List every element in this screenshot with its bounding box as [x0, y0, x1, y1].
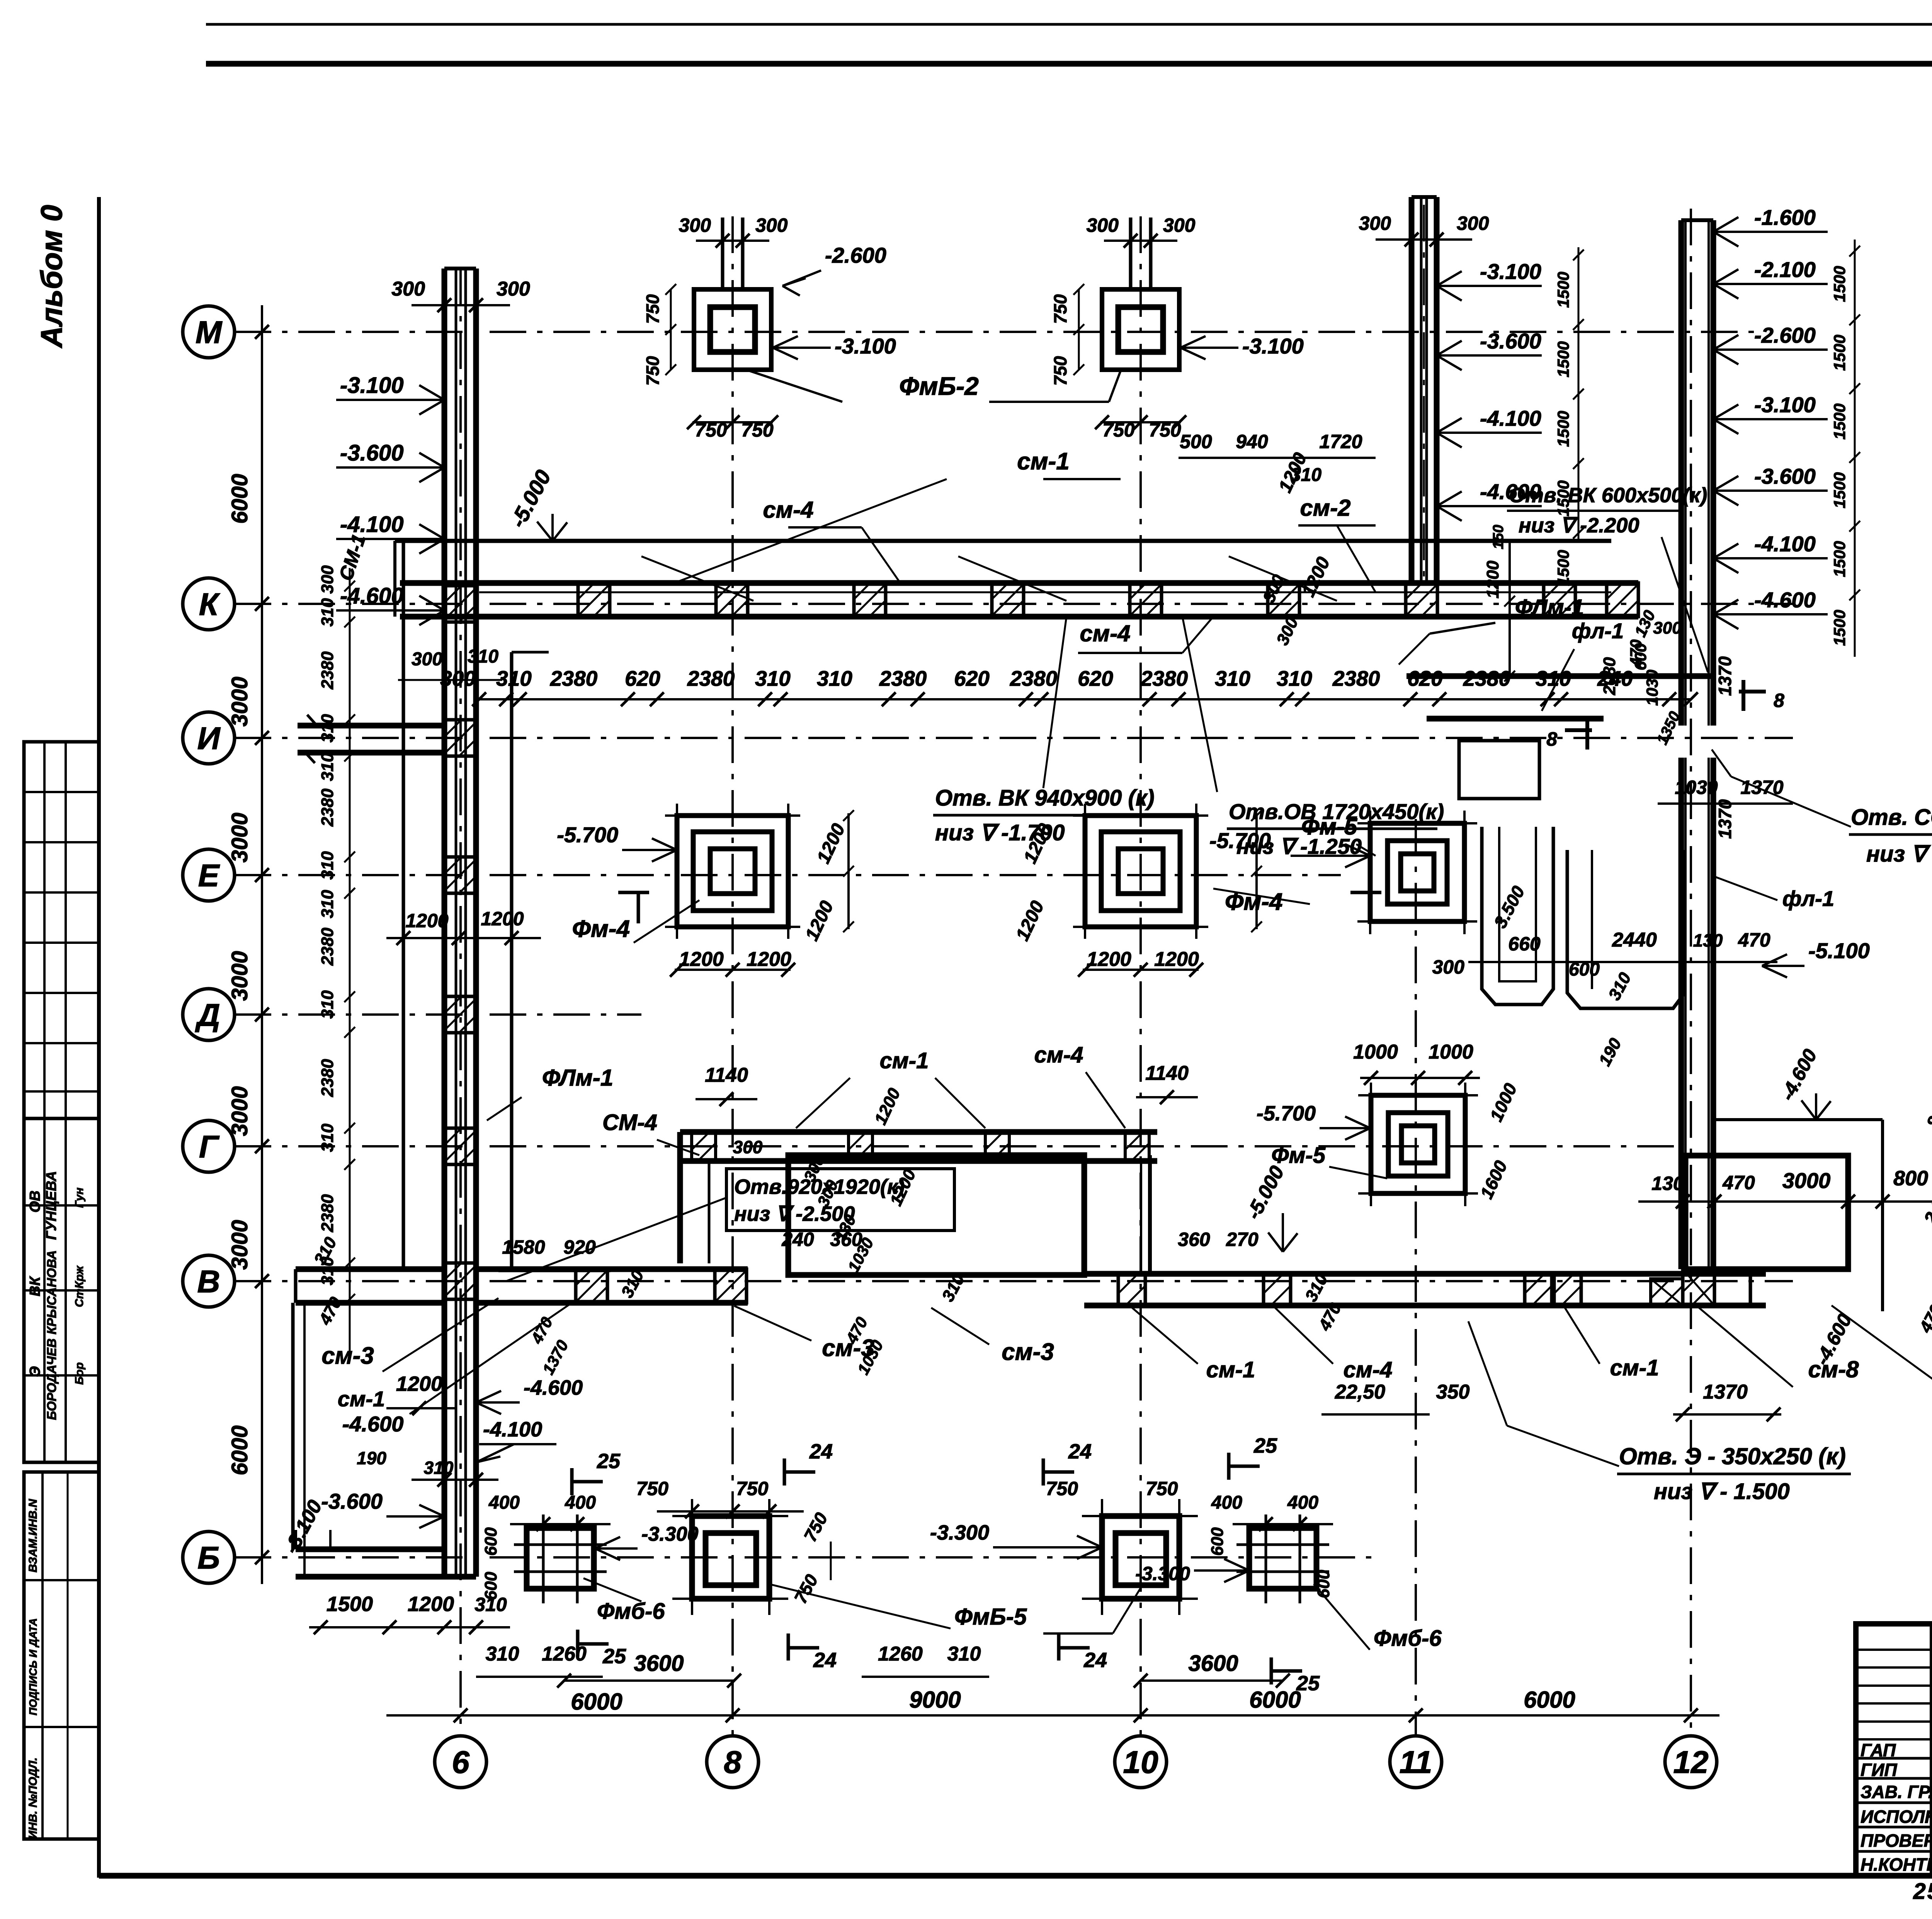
svg-text:ВК: ВК	[27, 1276, 43, 1296]
svg-text:9000: 9000	[909, 1687, 961, 1713]
svg-text:КРЫСАНОВА: КРЫСАНОВА	[44, 1250, 59, 1334]
500 940 1720 310 dims above right	[1179, 457, 1376, 459]
svg-text:24: 24	[1083, 1649, 1107, 1672]
level -4.600	[336, 609, 444, 612]
pad FMB-2 at axis 10/M	[1102, 289, 1179, 370]
V wall left stub	[296, 1266, 444, 1272]
svg-text:см-3: см-3	[1002, 1339, 1054, 1365]
svg-text:1370: 1370	[1715, 656, 1735, 696]
axis 12 circle	[1665, 1736, 1717, 1788]
svg-text:-4.600: -4.600	[1754, 588, 1816, 612]
svg-text:ОВ: ОВ	[27, 1191, 43, 1213]
vertical wall from V stub down to B corner	[291, 1303, 295, 1549]
svg-text:940: 940	[1236, 431, 1268, 452]
svg-text:Альбом 0: Альбом 0	[34, 205, 68, 348]
svg-text:6000: 6000	[227, 474, 252, 524]
frame top thin line	[206, 23, 1932, 26]
svg-text:см-1: см-1	[1017, 448, 1069, 475]
svg-text:-3.100: -3.100	[1480, 259, 1541, 284]
svg-text:6000: 6000	[571, 1689, 622, 1715]
svg-text:310: 310	[318, 598, 337, 627]
svg-text:310: 310	[318, 890, 337, 918]
svg-text:310: 310	[817, 666, 852, 690]
svg-text:470: 470	[1738, 929, 1770, 951]
svg-text:2380: 2380	[1010, 666, 1058, 690]
svg-text:см-1: см-1	[1610, 1355, 1659, 1380]
svg-text:1580: 1580	[502, 1236, 545, 1258]
svg-text:600: 600	[481, 1527, 500, 1556]
svg-text:750: 750	[1050, 356, 1070, 386]
svg-text:1370: 1370	[1740, 777, 1783, 798]
level labels right of axis-12 wall	[1713, 231, 1828, 233]
svg-text:см-1: см-1	[1206, 1357, 1255, 1382]
svg-text:-4.600: -4.600	[342, 1412, 404, 1436]
svg-text:300: 300	[318, 565, 337, 594]
svg-text:3600: 3600	[634, 1651, 684, 1676]
svg-text:2380: 2380	[318, 651, 337, 690]
svg-text:3000: 3000	[227, 676, 252, 726]
svg-text:низ ∇ -1.700: низ ∇ -1.700	[935, 820, 1065, 845]
svg-text:ГАП: ГАП	[1861, 1740, 1896, 1760]
axis И circle	[183, 712, 235, 764]
svg-text:1500: 1500	[1830, 610, 1849, 646]
svg-text:300: 300	[1087, 214, 1119, 236]
pad FM-4 at 10/E	[1085, 816, 1196, 927]
axis 10 circle	[1115, 1736, 1167, 1788]
left vertical dimension chain	[261, 305, 263, 1584]
svg-text:-4.100: -4.100	[1480, 406, 1541, 430]
svg-text:Н.КОНТР: Н.КОНТР	[1861, 1854, 1932, 1875]
G wall band	[680, 1129, 1157, 1135]
svg-text:К: К	[199, 587, 221, 622]
svg-text:3000: 3000	[1782, 1168, 1831, 1193]
svg-text:см-8: см-8	[1808, 1356, 1859, 1382]
axis Д circle	[183, 989, 235, 1040]
pad FMB-6 at x1450	[527, 1528, 594, 1589]
svg-text:310: 310	[486, 1643, 519, 1665]
1030 1370 dims at top right of E region	[1658, 802, 1793, 805]
svg-text:-3.100: -3.100	[1754, 393, 1816, 417]
svg-text:Фмб-6: Фмб-6	[597, 1599, 665, 1624]
svg-text:300: 300	[755, 214, 788, 236]
svg-text:Д: Д	[195, 998, 220, 1033]
svg-text:1500: 1500	[327, 1593, 373, 1616]
svg-text:750: 750	[643, 294, 663, 324]
hatched piers along K wall	[578, 583, 610, 617]
svg-text:1500: 1500	[1830, 335, 1849, 371]
svg-text:750: 750	[741, 419, 774, 441]
V wall band left half	[476, 1266, 748, 1272]
svg-text:Б: Б	[197, 1540, 220, 1576]
svg-text:310: 310	[1215, 666, 1250, 690]
svg-text:600: 600	[481, 1572, 500, 1600]
svg-text:1200: 1200	[396, 1372, 442, 1395]
svg-text:-5.700: -5.700	[557, 823, 618, 847]
svg-text:1500: 1500	[1830, 403, 1849, 439]
svg-text:Э: Э	[27, 1366, 43, 1377]
svg-text:310: 310	[947, 1643, 981, 1665]
sidebar upper table	[24, 742, 99, 1118]
svg-text:300: 300	[1457, 212, 1489, 234]
svg-text:2380: 2380	[550, 666, 598, 690]
svg-text:1000: 1000	[1429, 1041, 1473, 1063]
svg-text:фл-1: фл-1	[1782, 886, 1834, 911]
svg-text:1140: 1140	[1145, 1062, 1189, 1084]
300/300 marks at top of axis6 wall	[412, 304, 510, 306]
svg-text:Фм-4: Фм-4	[572, 916, 630, 942]
svg-text:ИСПОЛН: ИСПОЛН	[1861, 1807, 1932, 1827]
svg-text:ФмБ-2: ФмБ-2	[899, 372, 979, 400]
svg-text:2380: 2380	[318, 789, 337, 827]
vertical axis dash-dot lines	[459, 269, 462, 1735]
svg-text:1200: 1200	[1154, 948, 1199, 971]
wall on axis 12	[1679, 220, 1684, 726]
svg-text:Гун: Гун	[73, 1188, 86, 1208]
svg-text:-3.300: -3.300	[930, 1521, 989, 1544]
title block outer	[1856, 1624, 1932, 1876]
svg-text:2380: 2380	[1140, 666, 1188, 690]
svg-text:6000: 6000	[1249, 1687, 1301, 1713]
svg-text:-3.300: -3.300	[1135, 1563, 1190, 1584]
svg-text:800: 800	[1893, 1167, 1928, 1190]
svg-text:750: 750	[1102, 419, 1135, 441]
level -3.100	[336, 399, 444, 401]
svg-text:310: 310	[468, 646, 498, 667]
svg-text:1500: 1500	[1554, 272, 1572, 308]
level -3.600	[336, 466, 444, 469]
svg-text:Фм-5: Фм-5	[1271, 1143, 1326, 1168]
svg-text:ФЛм-1: ФЛм-1	[1515, 595, 1584, 620]
svg-text:660: 660	[1508, 933, 1541, 955]
svg-text:Отв. ВК 940х900 (к): Отв. ВК 940х900 (к)	[935, 785, 1155, 811]
U-shaft 2	[1567, 850, 1685, 1008]
1200/150 vertical dim near K right	[1509, 542, 1511, 676]
svg-text:1200: 1200	[408, 1593, 454, 1616]
montage opening rect	[1685, 1156, 1848, 1269]
frame left line	[97, 197, 101, 1878]
svg-text:1200: 1200	[405, 910, 448, 931]
svg-text:1500: 1500	[1554, 341, 1572, 377]
svg-text:190: 190	[357, 1448, 386, 1468]
svg-text:-4.100: -4.100	[483, 1418, 542, 1441]
svg-text:1260: 1260	[542, 1643, 587, 1665]
svg-text:24: 24	[813, 1649, 837, 1672]
level -4.100	[336, 538, 444, 540]
svg-text:6000: 6000	[227, 1425, 252, 1475]
svg-text:130: 130	[1651, 1173, 1684, 1194]
svg-text:8: 8	[1774, 690, 1784, 711]
svg-text:25: 25	[1253, 1434, 1277, 1457]
svg-text:12: 12	[1673, 1745, 1708, 1780]
svg-text:ЗАВ. ГР.: ЗАВ. ГР.	[1861, 1782, 1932, 1802]
svg-text:310: 310	[318, 990, 337, 1019]
svg-text:310: 310	[318, 753, 337, 781]
level labels right of axis-11 wall	[1437, 285, 1542, 287]
svg-text:150: 150	[1490, 525, 1507, 549]
svg-text:310: 310	[1291, 465, 1321, 485]
svg-text:-3.100: -3.100	[835, 334, 896, 358]
K-axis wall band	[400, 580, 1638, 586]
svg-text:300: 300	[733, 1137, 763, 1157]
svg-text:470: 470	[1627, 639, 1645, 667]
svg-text:300: 300	[412, 649, 442, 670]
wall on axis 11 upper part	[1409, 197, 1415, 583]
svg-text:ФЛм-1: ФЛм-1	[542, 1065, 613, 1091]
svg-text:500: 500	[1180, 431, 1212, 452]
svg-text:Отв. Э - 350х250 (к): Отв. Э - 350х250 (к)	[1619, 1443, 1846, 1469]
svg-text:Отв.920х1920(к): Отв.920х1920(к)	[734, 1175, 905, 1198]
svg-text:8: 8	[724, 1745, 742, 1780]
svg-text:Бор: Бор	[73, 1362, 86, 1385]
axis 11 circle	[1390, 1736, 1442, 1788]
svg-text:см-1: см-1	[880, 1048, 929, 1073]
svg-text:400: 400	[488, 1492, 520, 1513]
svg-text:М: М	[196, 315, 223, 350]
svg-text:1200: 1200	[1087, 948, 1131, 971]
T8 section marks at I	[1565, 728, 1592, 732]
svg-text:Отв. СС 250х250 (к): Отв. СС 250х250 (к)	[1851, 805, 1932, 830]
frame top thick line	[206, 61, 1932, 67]
U-shaft 1	[1482, 827, 1553, 1005]
I axis stub wall left	[298, 723, 444, 729]
sidebar lower table inv/podpis	[24, 1472, 99, 1839]
svg-text:-5.100: -5.100	[1808, 938, 1870, 963]
svg-text:1500: 1500	[1554, 550, 1572, 586]
svg-text:-3.600: -3.600	[1754, 464, 1816, 488]
svg-text:25343-01: 25343-01	[1913, 1879, 1932, 1904]
svg-text:-3.100: -3.100	[340, 373, 403, 398]
sidebar signature table	[24, 1118, 99, 1462]
svg-text:низ ∇ - 1.500: низ ∇ - 1.500	[1654, 1479, 1790, 1504]
svg-text:см-4: см-4	[1344, 1357, 1393, 1382]
svg-text:1030: 1030	[1643, 670, 1661, 705]
svg-text:1500: 1500	[1554, 411, 1572, 447]
svg-text:11: 11	[1399, 1745, 1432, 1780]
svg-text:3000: 3000	[227, 1086, 252, 1136]
svg-text:25: 25	[1296, 1672, 1320, 1695]
svg-text:Отв.ОВ 1720х450(к): Отв.ОВ 1720х450(к)	[1229, 799, 1444, 824]
svg-text:ВЗАМ.ИНВ.N: ВЗАМ.ИНВ.N	[27, 1499, 39, 1572]
I axis right strip (FLM-1)	[1406, 673, 1714, 679]
svg-text:-3.600: -3.600	[1480, 329, 1541, 353]
svg-text:1370: 1370	[1703, 1381, 1748, 1403]
svg-text:2380: 2380	[318, 1059, 337, 1097]
svg-text:3000: 3000	[227, 812, 252, 862]
svg-text:400: 400	[1211, 1492, 1242, 1513]
svg-text:ГИП: ГИП	[1861, 1760, 1897, 1780]
svg-text:см-4: см-4	[763, 497, 813, 523]
V wall band right half	[1084, 1271, 1766, 1277]
svg-text:СМ-4: СМ-4	[602, 1110, 657, 1135]
svg-text:1140: 1140	[705, 1064, 748, 1086]
pad FMB-6 at x3320	[1249, 1528, 1316, 1589]
svg-text:-5.700: -5.700	[1257, 1102, 1316, 1125]
svg-text:300: 300	[391, 278, 425, 300]
svg-text:2380: 2380	[687, 666, 735, 690]
right outer wall lines below	[1749, 1269, 1752, 1305]
svg-text:24: 24	[1068, 1440, 1092, 1463]
svg-text:310: 310	[496, 666, 532, 690]
svg-text:-2.600: -2.600	[825, 243, 886, 267]
axis Е circle	[183, 849, 235, 901]
axis В circle	[183, 1255, 235, 1307]
svg-text:см-4: см-4	[1080, 620, 1130, 646]
K dimension row 2380/620	[479, 698, 1691, 700]
svg-text:620: 620	[1078, 666, 1113, 690]
svg-text:10: 10	[1123, 1745, 1158, 1780]
svg-text:см-4: см-4	[1034, 1042, 1083, 1067]
12-wall lower part to B	[1679, 758, 1684, 1269]
svg-text:фл-1: фл-1	[1572, 619, 1624, 643]
svg-text:3000: 3000	[227, 951, 252, 1001]
svg-text:см-3: см-3	[822, 1335, 874, 1361]
axis 6 circle	[435, 1736, 486, 1788]
svg-text:750: 750	[1149, 419, 1181, 441]
svg-text:300: 300	[497, 278, 530, 300]
Otv 920x1920 box label	[726, 1169, 954, 1231]
svg-text:ПОДПИСЬ И ДАТА: ПОДПИСЬ И ДАТА	[27, 1618, 39, 1715]
svg-text:см-3: см-3	[321, 1343, 374, 1369]
svg-text:22,50: 22,50	[1335, 1381, 1385, 1403]
svg-text:750: 750	[636, 1478, 669, 1499]
svg-text:2380: 2380	[879, 666, 927, 690]
pad FM-4 at 8/E	[677, 816, 788, 927]
strip footing edge lines along axis-6 wall	[402, 541, 405, 1269]
svg-text:750: 750	[1046, 1478, 1078, 1499]
svg-text:300: 300	[1653, 619, 1682, 637]
left columns of title block	[1930, 1624, 1932, 1876]
svg-text:25: 25	[597, 1450, 621, 1473]
svg-text:2380: 2380	[318, 928, 337, 966]
svg-text:350: 350	[1436, 1381, 1470, 1403]
section flags at axis 10	[1042, 1458, 1045, 1486]
axis Г circle	[183, 1120, 235, 1172]
svg-text:1500: 1500	[1830, 541, 1849, 577]
svg-text:низ ∇ -2.200: низ ∇ -2.200	[1519, 514, 1639, 537]
svg-text:низ ∇ -1.250: низ ∇ -1.250	[1236, 834, 1362, 858]
svg-text:-1.600: -1.600	[1754, 205, 1816, 229]
hatched piers on axis-6 wall	[444, 586, 476, 622]
svg-text:В: В	[197, 1264, 220, 1299]
svg-text:400: 400	[565, 1492, 596, 1513]
svg-text:130: 130	[1693, 930, 1723, 950]
svg-text:6000: 6000	[1524, 1687, 1575, 1713]
svg-text:2380: 2380	[1332, 666, 1380, 690]
upper thick line (-5.000 wall face)	[395, 539, 1611, 543]
svg-text:300: 300	[1359, 212, 1391, 234]
svg-text:-4.600: -4.600	[524, 1376, 583, 1399]
svg-text:300: 300	[1163, 214, 1196, 236]
svg-text:470: 470	[1722, 1172, 1755, 1193]
svg-text:см-2: см-2	[1300, 495, 1350, 521]
upper-right room above V band	[1148, 1155, 1152, 1274]
svg-text:1200: 1200	[747, 948, 791, 971]
svg-text:Е: Е	[198, 858, 220, 893]
svg-text:1200: 1200	[1483, 561, 1502, 598]
svg-text:310: 310	[318, 1124, 337, 1152]
svg-text:8: 8	[1546, 728, 1557, 750]
pad FMB-5 at axis 10	[1102, 1516, 1179, 1599]
svg-text:2380: 2380	[318, 1194, 337, 1232]
section flags 25	[570, 1468, 574, 1495]
pad FMB-5 at axis 8	[692, 1516, 769, 1599]
axis М circle	[183, 306, 235, 358]
svg-text:300: 300	[679, 214, 711, 236]
svg-text:см-1: см-1	[338, 1387, 385, 1411]
svg-text:310: 310	[755, 666, 791, 690]
axis Б circle	[183, 1531, 235, 1583]
svg-text:25: 25	[602, 1645, 626, 1668]
svg-text:750: 750	[1050, 294, 1070, 324]
svg-text:1260: 1260	[878, 1643, 923, 1665]
svg-text:Фмб-6: Фмб-6	[1374, 1626, 1442, 1651]
svg-text:750: 750	[736, 1478, 769, 1499]
svg-text:ГУНЦЕВА: ГУНЦЕВА	[43, 1171, 59, 1240]
svg-text:920: 920	[563, 1236, 596, 1258]
svg-text:Отв. ВК 600х500(к): Отв. ВК 600х500(к)	[1509, 484, 1707, 507]
svg-text:-2.100: -2.100	[1754, 257, 1816, 282]
svg-text:360: 360	[1178, 1229, 1210, 1250]
svg-text:1030: 1030	[1675, 777, 1718, 798]
svg-text:И: И	[197, 721, 221, 756]
svg-text:1720: 1720	[1319, 431, 1362, 452]
horizontal axis dash-dot lines	[235, 331, 1754, 333]
svg-text:600: 600	[1208, 1527, 1227, 1556]
svg-text:2440: 2440	[1612, 929, 1657, 951]
svg-text:310: 310	[1277, 666, 1312, 690]
svg-text:низ ∇ -0.850: низ ∇ -0.850	[1866, 841, 1932, 867]
svg-text:6: 6	[452, 1745, 470, 1780]
svg-text:1500: 1500	[1830, 266, 1849, 302]
svg-text:ИНВ. №ПОДЛ.: ИНВ. №ПОДЛ.	[27, 1758, 39, 1839]
frame bottom line	[99, 1873, 1932, 1879]
svg-text:2080: 2080	[1600, 657, 1619, 695]
B wall left horizontal band	[296, 1547, 444, 1552]
pad FM-5 at 11/G	[1371, 1095, 1465, 1193]
svg-text:620: 620	[625, 666, 660, 690]
svg-text:1500: 1500	[1830, 472, 1849, 508]
svg-text:-3.600: -3.600	[340, 440, 403, 466]
pad FMB-2 at axis 8/M	[694, 289, 771, 370]
svg-text:3000: 3000	[227, 1220, 252, 1270]
3600 dim lines bottom	[564, 1679, 734, 1682]
axis К circle	[183, 578, 235, 630]
svg-text:300: 300	[1432, 956, 1465, 978]
svg-text:-4.100: -4.100	[1754, 532, 1816, 556]
svg-text:1200: 1200	[679, 948, 724, 971]
svg-text:270: 270	[1226, 1229, 1259, 1250]
room rect between G and V	[788, 1155, 1084, 1275]
svg-text:БОРОДАЧЕВ: БОРОДАЧЕВ	[44, 1338, 59, 1420]
svg-text:310: 310	[318, 851, 337, 880]
svg-text:600: 600	[1314, 1570, 1333, 1598]
1500 chain for axis11 wall	[1578, 247, 1580, 541]
svg-text:750: 750	[1146, 1478, 1178, 1499]
bottom horizontal dimension chain	[386, 1714, 1719, 1717]
svg-text:750: 750	[643, 356, 663, 386]
inner dim chain along axis6 wall (310/2380)	[349, 568, 351, 1352]
svg-text:ПРОВЕР.: ПРОВЕР.	[1861, 1831, 1932, 1851]
pad FM-5 at 11/E	[1370, 823, 1464, 921]
svg-text:620: 620	[954, 666, 990, 690]
svg-text:1370: 1370	[1715, 799, 1735, 839]
svg-text:-3.100: -3.100	[1242, 334, 1304, 358]
svg-text:1000: 1000	[1353, 1041, 1398, 1063]
svg-text:1200: 1200	[481, 908, 524, 930]
svg-text:400: 400	[1287, 1492, 1318, 1513]
VK600x500 opening box below I	[1459, 741, 1539, 799]
svg-text:Г: Г	[199, 1129, 220, 1164]
